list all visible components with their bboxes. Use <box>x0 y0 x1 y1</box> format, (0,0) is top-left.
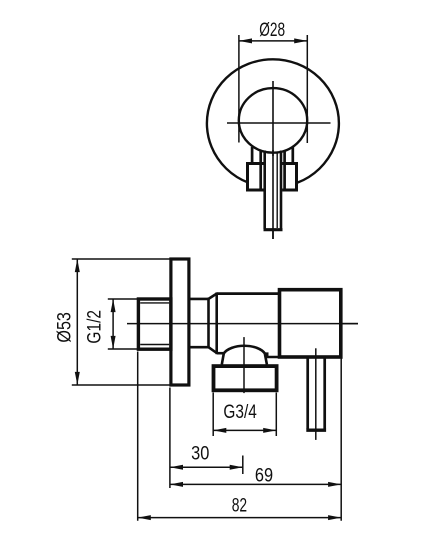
flange outer circle (wall plate, top view) <box>207 59 339 187</box>
valve body bottom step right of outlet <box>265 354 281 357</box>
valve stem collar outer right (top view) <box>291 147 294 165</box>
dimension Ø28 extension line left <box>238 35 240 143</box>
outlet tube inner bore line (top view) <box>276 152 278 229</box>
neck end vertical <box>207 298 210 349</box>
body flare cone top slant <box>209 294 217 299</box>
dimension 30 arrow right <box>230 465 243 470</box>
dimension Ø53 arrow down <box>75 372 80 385</box>
handle knob circle (top view) <box>239 88 307 153</box>
dimension G3/4 extension line right <box>275 393 277 437</box>
vertical centerline (top view) <box>272 81 274 239</box>
dimension Ø53 extension line bottom <box>72 384 170 386</box>
dimension G3/4 arrow right <box>263 428 276 433</box>
svg-text:69: 69 <box>255 466 273 487</box>
vertical centerline lower part re-draw over tube <box>272 150 274 239</box>
dimension G1/2 arrow up <box>111 299 116 312</box>
white mask for outlet tube over nut <box>264 156 283 228</box>
dimension G3/4 arrow left <box>213 428 226 433</box>
riser pipe end cap <box>306 429 326 432</box>
dimension G1/2 line <box>112 299 114 349</box>
stem nut facet line left <box>259 151 262 190</box>
outlet dome arc <box>224 346 265 354</box>
svg-text:G3/4: G3/4 <box>223 402 257 423</box>
horizontal centerline (front view) <box>127 323 358 325</box>
svg-text:30: 30 <box>191 443 209 464</box>
outlet tube wall right (top view) <box>280 151 283 230</box>
inlet thread minor line bottom <box>140 344 169 346</box>
dimension G3/4 extension line left <box>212 393 214 437</box>
valve stem collar outer left (top view) <box>251 147 254 165</box>
inlet thread G1/2 body <box>138 299 171 349</box>
body flare end vertical <box>215 292 218 354</box>
outlet tube end cap (top view) <box>264 228 283 231</box>
svg-text:G1/2: G1/2 <box>84 310 105 344</box>
outlet dome side left <box>222 353 224 364</box>
outlet union nut G3/4 (front view) <box>214 366 277 390</box>
dimension 30 end tick <box>242 456 244 475</box>
dimension 82 line <box>138 517 342 519</box>
outlet vertical centerline <box>243 337 245 393</box>
neck bottom line <box>189 346 209 349</box>
dimension G1/2 extension line top <box>108 298 137 300</box>
dimension Ø53 extension line top <box>72 258 170 260</box>
dimension Ø28 extension line right <box>306 35 308 143</box>
svg-text:Ø28: Ø28 <box>259 20 285 41</box>
dimension G3/4 line <box>213 429 276 431</box>
extension line from block right edge down <box>340 359 342 521</box>
outlet dome side right <box>265 353 267 364</box>
dimension Ø28 line <box>239 40 307 42</box>
dimension G1/2 extension line bottom <box>108 348 137 350</box>
extension line from flange left edge down <box>169 388 171 489</box>
dimension Ø53 line <box>76 259 78 385</box>
stem nut facet line right <box>283 151 286 190</box>
dimension Ø28 arrow left <box>239 38 252 43</box>
neck top line <box>189 298 209 301</box>
dimension 30 arrow left <box>170 465 183 470</box>
dimension G1/2 arrow down <box>111 336 116 349</box>
horizontal centerline (top view) <box>227 122 331 124</box>
outlet tube wall left (top view) <box>263 151 266 230</box>
dimension Ø53 arrow up <box>75 259 80 272</box>
dimension 82 arrow right <box>328 515 341 520</box>
dimension 82 arrow left <box>138 515 151 520</box>
riser pipe wall left <box>306 358 309 429</box>
dimension 69 arrow left <box>170 482 183 487</box>
body flare cone bottom slant <box>209 347 217 353</box>
svg-text:Ø53: Ø53 <box>55 312 76 343</box>
stem nut (top view) <box>248 164 297 191</box>
wall flange (front view) <box>171 259 189 385</box>
svg-text:82: 82 <box>232 495 247 516</box>
dimension 69 line <box>170 483 341 485</box>
extension line from inlet thread left edge down <box>137 352 139 521</box>
valve body top line <box>217 292 281 295</box>
valve body bottom line left of outlet <box>217 352 225 355</box>
horizontal centerline re-draw over block <box>341 323 358 325</box>
dimension Ø28 arrow right <box>294 38 307 43</box>
valve head square block (front view) <box>280 290 341 357</box>
dimension 30 line <box>170 466 243 468</box>
riser pipe centerline <box>315 348 317 440</box>
dimension 69 arrow right <box>328 482 341 487</box>
inlet thread minor line top <box>140 302 169 304</box>
riser pipe wall right <box>323 358 326 429</box>
